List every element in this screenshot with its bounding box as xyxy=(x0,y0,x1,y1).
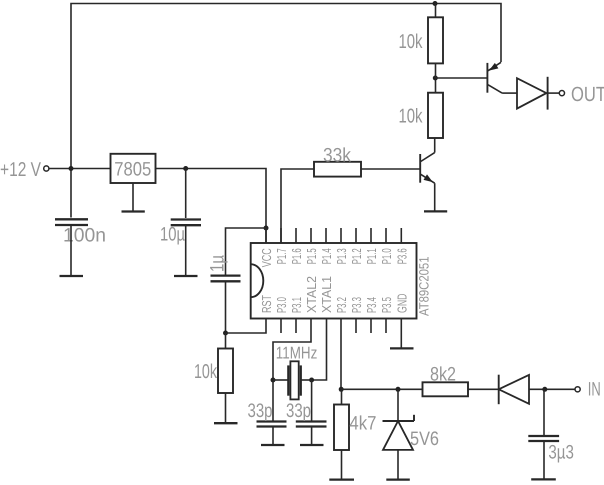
wire 7805 output to VCC xyxy=(156,169,267,244)
svg-text:P1.5: P1.5 xyxy=(304,248,319,264)
resistor R4 33k xyxy=(314,162,361,177)
ground 100n xyxy=(60,275,84,277)
capacitor C1 100n xyxy=(55,218,88,220)
svg-text:33k: 33k xyxy=(323,144,351,166)
wire 10u down xyxy=(185,225,187,276)
pin P3.3 xyxy=(355,319,357,334)
ground C5 xyxy=(300,444,324,446)
node P3.2 junction xyxy=(339,387,344,392)
wire zener down xyxy=(397,450,399,480)
wire 8k2 to diode xyxy=(468,388,499,390)
wire 7805 to ground xyxy=(132,183,134,212)
svg-text:XTAL2: XTAL2 xyxy=(304,276,319,313)
pin GND xyxy=(400,319,402,349)
wire R1 bottom xyxy=(435,63,437,78)
resistor R1 10k xyxy=(428,17,443,63)
wire 3u3 up xyxy=(543,389,545,435)
node zener junction xyxy=(396,387,401,392)
svg-text:10k: 10k xyxy=(399,106,424,128)
svg-text:10k: 10k xyxy=(399,31,424,53)
resistor R6 8k2 xyxy=(423,382,469,396)
pin VCC xyxy=(265,228,267,243)
svg-text:10µ: 10µ xyxy=(160,224,185,246)
wire 1u to RST node xyxy=(225,281,227,333)
transistor Q1 xyxy=(419,154,421,183)
svg-text:+12 V: +12 V xyxy=(0,159,42,181)
pin P1.0 xyxy=(385,228,387,243)
wire P3.2 down xyxy=(340,319,342,390)
svg-text:1µ: 1µ xyxy=(207,255,229,272)
pin P1.1 xyxy=(370,228,372,243)
capacitor C2 10u xyxy=(171,218,201,220)
capacitor C3 1u xyxy=(211,274,241,276)
diode D3 zener 5V6 xyxy=(383,420,415,422)
ground C4 xyxy=(261,444,285,446)
svg-text:33p: 33p xyxy=(286,400,311,422)
svg-text:AT89C2051: AT89C2051 xyxy=(417,257,432,317)
pin P1.7 xyxy=(280,228,282,243)
svg-text:P1.4: P1.4 xyxy=(319,248,334,264)
svg-text:OUT: OUT xyxy=(571,83,604,106)
diode D1 in xyxy=(498,375,500,405)
pin P1.4 xyxy=(325,228,327,243)
svg-text:10k: 10k xyxy=(194,361,218,383)
wire VCC node to 1u xyxy=(226,228,267,275)
capacitor C6 3u3 xyxy=(528,435,559,437)
svg-text:P3.5: P3.5 xyxy=(379,297,394,313)
pin P3.1 xyxy=(295,319,297,334)
pin P1.2 xyxy=(355,228,357,243)
svg-text:GND: GND xyxy=(394,294,409,314)
wire C5 down xyxy=(311,427,313,446)
resistor R2 10k xyxy=(428,93,443,138)
svg-text:P3.2: P3.2 xyxy=(334,297,349,313)
wire C6 down xyxy=(543,441,545,479)
svg-text:P1.7: P1.7 xyxy=(274,248,289,264)
wire XTAL1 to crystal xyxy=(312,319,327,381)
ground zener xyxy=(386,478,410,480)
svg-text:P1.6: P1.6 xyxy=(289,248,304,264)
regulator 7805 xyxy=(111,154,156,183)
svg-text:XTAL1: XTAL1 xyxy=(319,276,334,313)
node 3u3 junction xyxy=(542,387,547,392)
svg-text:3µ3: 3µ3 xyxy=(548,442,574,464)
ground GND pin xyxy=(390,347,414,349)
terminal +12V xyxy=(44,166,49,171)
wire R3 down xyxy=(225,393,227,423)
svg-text:P1.1: P1.1 xyxy=(364,248,379,264)
wire 33k to Q1 base xyxy=(361,168,420,170)
node RST junction xyxy=(223,331,228,336)
svg-text:8k2: 8k2 xyxy=(430,364,456,386)
svg-text:VCC: VCC xyxy=(259,248,274,267)
node top rail junction xyxy=(433,1,438,6)
wire left 33p up xyxy=(272,380,274,421)
ground 7805 xyxy=(122,210,145,212)
ground C6 xyxy=(531,478,556,480)
wire 100n down xyxy=(70,225,72,276)
wire top +12V rail xyxy=(71,4,501,218)
wire diode to IN xyxy=(529,388,575,390)
pin P1.3 xyxy=(340,228,342,243)
wire Q1 emitter xyxy=(434,183,436,211)
node 10u junction xyxy=(183,166,188,171)
ground 10u xyxy=(174,275,198,277)
wire R5 down xyxy=(341,450,343,480)
terminal IN xyxy=(575,387,580,392)
wire junction to 8k2 xyxy=(341,388,423,390)
svg-text:RST: RST xyxy=(259,295,274,313)
node crystal right xyxy=(309,378,314,383)
svg-text:P1.0: P1.0 xyxy=(379,248,394,264)
resistor R5 4k7 xyxy=(334,405,349,451)
transistor Q2 xyxy=(486,63,488,93)
node input junction xyxy=(69,166,74,171)
wire RST xyxy=(226,319,267,334)
ground R3 xyxy=(214,422,238,424)
svg-text:P1.3: P1.3 xyxy=(334,248,349,264)
wire input to 7805 xyxy=(49,168,111,170)
crystal Q3 xyxy=(273,379,288,381)
ground R5 xyxy=(329,478,354,480)
wire C4 down xyxy=(272,427,274,446)
wire 4k7 top xyxy=(341,389,343,404)
svg-text:7805: 7805 xyxy=(114,158,151,180)
svg-text:11MHz: 11MHz xyxy=(276,343,318,362)
wire D2 to OUT xyxy=(548,92,560,94)
node R1 R2 junction xyxy=(433,76,438,81)
wire right 33p up xyxy=(311,380,313,421)
svg-text:5V6: 5V6 xyxy=(410,428,439,450)
wire R1 top xyxy=(435,4,437,18)
svg-text:P1.2: P1.2 xyxy=(349,248,364,264)
capacitor C5 33p xyxy=(296,420,327,422)
pin P1.6 xyxy=(295,228,297,243)
diode D2 out xyxy=(517,78,546,108)
svg-text:P3.6: P3.6 xyxy=(394,248,409,264)
wire zener top xyxy=(397,389,399,421)
svg-text:P3.0: P3.0 xyxy=(274,297,289,313)
pin P3.4 xyxy=(370,319,372,334)
wire 10u up xyxy=(185,169,187,219)
pin P3.6 xyxy=(400,228,402,243)
capacitor C4 33p xyxy=(257,420,287,422)
wire P1.7 to 33k xyxy=(281,169,314,243)
svg-text:P3.4: P3.4 xyxy=(364,297,379,313)
wire junction to Q2 base xyxy=(435,77,487,79)
node VCC branch junction xyxy=(264,226,269,231)
wire Q1 collector xyxy=(434,138,436,153)
resistor R3 10k xyxy=(218,349,233,394)
wire Q2 collector to diode xyxy=(502,92,517,94)
svg-text:100n: 100n xyxy=(63,224,106,246)
wire RST node down xyxy=(225,333,227,349)
ground Q1 emitter xyxy=(424,210,447,212)
pin P3.5 xyxy=(385,319,387,334)
svg-text:P3.3: P3.3 xyxy=(349,297,364,313)
IC notch xyxy=(251,264,264,297)
svg-text:IN: IN xyxy=(588,378,601,400)
pin P1.5 xyxy=(310,228,312,243)
IC U1 AT89C2051 xyxy=(251,243,417,319)
svg-text:4k7: 4k7 xyxy=(349,412,376,434)
svg-text:33p: 33p xyxy=(248,400,273,422)
terminal OUT xyxy=(559,91,564,96)
svg-text:P3.1: P3.1 xyxy=(289,297,304,313)
node crystal left xyxy=(271,378,276,383)
wire R2 top xyxy=(435,78,437,93)
wire XTAL2 to crystal xyxy=(273,319,311,381)
pin P3.0 xyxy=(280,319,282,334)
